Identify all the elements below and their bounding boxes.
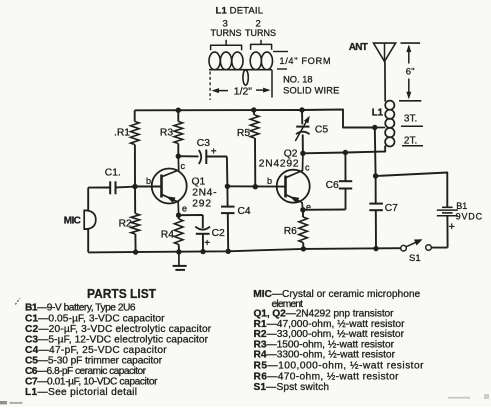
- R3 value label: [160, 127, 173, 138]
- junction top of R5: [251, 107, 256, 112]
- svg-text:C6: C6: [326, 180, 339, 191]
- svg-text:B1: B1: [456, 201, 467, 211]
- L1 tap wire: [375, 127, 385, 129]
- svg-text:+: +: [449, 221, 455, 233]
- svg-text:C3: C3: [197, 138, 210, 149]
- wire: C4 node to Q2 base: [227, 185, 285, 187]
- parts list item L1: [25, 387, 137, 398]
- svg-text:NO. 18: NO. 18: [283, 75, 312, 85]
- parts list item C1: [25, 313, 165, 324]
- junction R6 bottom: [301, 246, 306, 251]
- MIC label: [64, 215, 81, 226]
- parts list item C4: [25, 345, 167, 356]
- L1 detail coil (5 loops with tap): [209, 52, 273, 70]
- svg-text:C6—6.8-pF ceramic capacitor: C6—6.8-pF ceramic capacitor: [25, 366, 147, 377]
- Q1 base label b: [146, 176, 151, 186]
- resistor R1: [131, 110, 140, 186]
- svg-text:R5: R5: [237, 128, 250, 139]
- L1 tap junction: [372, 125, 377, 130]
- bracket over 2 turns: [251, 40, 272, 50]
- junction Q1 emitter node: [176, 213, 181, 218]
- Q2 designator: [259, 148, 299, 169]
- R6 value label: [284, 226, 297, 237]
- svg-text:+: +: [204, 238, 210, 249]
- parts list item C7: [25, 377, 158, 388]
- svg-text:.R1: .R1: [114, 127, 130, 138]
- parts list item C6: [25, 366, 147, 377]
- parts list item C3: [25, 335, 209, 346]
- svg-text:C5: C5: [315, 125, 328, 136]
- svg-text:Q1: Q1: [192, 177, 206, 188]
- Q1 emitter label e: [182, 204, 187, 214]
- C3 value label: [197, 138, 210, 149]
- capacitor C7: [369, 176, 383, 249]
- svg-text:C4: C4: [238, 206, 251, 217]
- quarter-inch form callout: [273, 52, 331, 70]
- svg-text:2N4-: 2N4-: [192, 188, 216, 199]
- svg-text:L1: L1: [372, 108, 384, 119]
- Q2 emitter label e: [306, 202, 311, 212]
- junction Q1 collector node: [176, 154, 181, 159]
- svg-text:c: c: [181, 161, 186, 171]
- wire: L1 bottom to collector row: [303, 147, 385, 154]
- L1 detail 3-turns label: [211, 19, 242, 39]
- ground symbol: [173, 252, 187, 270]
- svg-text:Q2: Q2: [284, 148, 298, 159]
- battery B1: [431, 207, 458, 247]
- svg-text:6": 6": [406, 67, 415, 78]
- parts list item R3: [254, 339, 395, 350]
- svg-text:MIC: MIC: [64, 215, 81, 226]
- capacitor C6: [303, 153, 352, 210]
- svg-text:1/4" FORM: 1/4" FORM: [279, 56, 330, 66]
- svg-text:S1—Spst switch: S1—Spst switch: [254, 382, 330, 393]
- svg-text:e: e: [182, 204, 187, 214]
- resistor R5: [250, 110, 259, 187]
- trimmer capacitor C5: [295, 110, 310, 153]
- parts list item R2: [254, 329, 405, 340]
- R4 value label: [161, 230, 174, 241]
- svg-text:1/2": 1/2": [234, 86, 252, 97]
- wire gauge note: [283, 75, 339, 96]
- Q1 collector label c: [181, 161, 186, 171]
- C5 value label: [315, 125, 328, 136]
- svg-text:R6—470-ohm, ½-watt resistor: R6—470-ohm, ½-watt resistor: [254, 371, 400, 382]
- resistor R2: [131, 187, 140, 253]
- resistor R3: [174, 110, 183, 156]
- svg-text:b: b: [267, 176, 272, 186]
- svg-text:+: +: [211, 147, 217, 158]
- bottom ground rail wire: [88, 248, 401, 252]
- svg-text:C2: C2: [212, 228, 225, 239]
- svg-text:c: c: [305, 163, 310, 173]
- Q1 designator: [192, 177, 217, 210]
- parts list MIC element line: [272, 299, 304, 310]
- capacitor C3: [178, 150, 227, 187]
- C6 value label: [326, 180, 339, 191]
- resistor R6: [299, 210, 308, 249]
- R5 value label: [237, 128, 250, 139]
- microphone MIC: [84, 188, 96, 253]
- svg-text:C1.: C1.: [105, 167, 121, 178]
- R1 value label: [114, 127, 130, 138]
- wire: branch to battery: [376, 173, 448, 208]
- capacitor C4: [221, 186, 235, 251]
- svg-text:B1—9-V battery, Type 2U6: B1—9-V battery, Type 2U6: [25, 303, 136, 314]
- svg-text:292: 292: [192, 198, 211, 209]
- 3T marker: [401, 113, 423, 126]
- svg-text:ANT: ANT: [349, 42, 368, 53]
- parts list item S1: [254, 382, 330, 393]
- svg-text:C5—5-30 pF trimmer capacitor: C5—5-30 pF trimmer capacitor: [25, 355, 163, 366]
- svg-text:3T.: 3T.: [404, 113, 417, 124]
- svg-text:S1: S1: [409, 253, 421, 264]
- B1 label: [456, 201, 483, 221]
- junction C2 bottom: [200, 249, 205, 254]
- C4 value label: [238, 206, 251, 217]
- svg-text:PARTS LIST: PARTS LIST: [87, 286, 156, 301]
- parts list item R1: [254, 319, 406, 330]
- svg-text:R5—100,000-ohm, ½-watt resisto: R5—100,000-ohm, ½-watt resistor: [254, 361, 425, 372]
- svg-text:TURNS: TURNS: [211, 28, 242, 38]
- inductor L1: [385, 101, 394, 148]
- L1 detail title: [216, 6, 264, 17]
- junction Q2 emitter node: [300, 207, 305, 212]
- bracket over 3 turns: [211, 40, 242, 51]
- parts list item Q1, Q2: [254, 309, 395, 320]
- junction R2 bottom: [133, 249, 138, 254]
- junction C7 bottom: [373, 246, 378, 251]
- svg-text:R4: R4: [161, 230, 174, 241]
- antenna symbol: [374, 43, 396, 61]
- junction C6 top: [343, 150, 348, 155]
- svg-text:2T.: 2T.: [404, 136, 417, 147]
- transistor Q2: [277, 153, 310, 210]
- svg-text:b: b: [146, 176, 151, 186]
- junction top of R3: [176, 108, 181, 113]
- 2T marker: [402, 136, 423, 147]
- svg-text:9VDC: 9VDC: [456, 211, 483, 221]
- svg-text:C1—0.05-µF, 3-VDC capacitor: C1—0.05-µF, 3-VDC capacitor: [25, 313, 165, 324]
- parts list item B1: [25, 303, 136, 314]
- junction battery branch: [373, 173, 378, 178]
- C7 value label: [385, 203, 398, 214]
- Q2 collector label c: [305, 163, 310, 173]
- top supply rail wire: [135, 110, 375, 128]
- svg-text:C7—0.01-µF, 10-VDC capacitor: C7—0.01-µF, 10-VDC capacitor: [25, 377, 158, 388]
- svg-text:R4—3300-ohm, ½-watt resistor: R4—3300-ohm, ½-watt resistor: [254, 350, 396, 361]
- svg-text:L1 DETAIL: L1 DETAIL: [216, 6, 264, 17]
- junction Q2 collector node: [300, 151, 305, 156]
- ANT label: [349, 42, 368, 53]
- battery polarity plus: [449, 221, 455, 233]
- parts list item C5: [25, 355, 163, 366]
- svg-text:C7: C7: [385, 203, 398, 214]
- junction R5 bottom: [253, 184, 258, 189]
- S1 label: [409, 253, 421, 264]
- parts list item MIC: [253, 289, 420, 300]
- antenna lead wire: [384, 62, 386, 101]
- parts list item C2: [25, 324, 212, 335]
- R2 value label: [119, 218, 132, 229]
- Q2 base label b: [267, 176, 272, 186]
- parts list title: [87, 286, 156, 301]
- switch S1: [401, 239, 432, 251]
- junction R4 bottom / ground: [176, 249, 181, 254]
- svg-text:2N4292: 2N4292: [259, 159, 299, 170]
- junction C4 bottom: [226, 249, 231, 254]
- junction Q1 base node: [132, 184, 137, 189]
- parts list item R4: [254, 350, 396, 361]
- capacitor C2: [179, 215, 210, 252]
- svg-text:R2: R2: [119, 218, 132, 229]
- junction C4 top: [225, 184, 230, 189]
- svg-text:TURNS: TURNS: [245, 28, 276, 38]
- parts list item R6: [254, 371, 400, 382]
- svg-text:R6: R6: [284, 226, 297, 237]
- wire: L1 tap down to C7: [374, 128, 377, 177]
- parts list item R5: [254, 361, 425, 372]
- half-inch dimension: [210, 70, 272, 100]
- resistor R4: [174, 215, 183, 252]
- L1 label: [372, 108, 384, 119]
- C2 polarity plus: [204, 238, 210, 249]
- junction top of C5: [299, 107, 304, 112]
- C3 polarity plus: [211, 147, 217, 158]
- transistor Q1: [135, 156, 187, 215]
- C1 value label: [105, 167, 121, 178]
- svg-text:R3: R3: [160, 127, 173, 138]
- L1 detail 2-turns label: [245, 19, 276, 39]
- svg-text:C3—5-µF, 12-VDC electrolytic c: C3—5-µF, 12-VDC electrolytic capacitor: [25, 335, 209, 346]
- svg-text:L1—See pictorial detail: L1—See pictorial detail: [25, 387, 137, 398]
- capacitor C1: [88, 181, 135, 194]
- svg-text:SOLID WIRE: SOLID WIRE: [283, 86, 339, 96]
- svg-text:C4—47-pF, 25-VDC capacitor: C4—47-pF, 25-VDC capacitor: [25, 345, 167, 356]
- L1 detail tap loop: [243, 70, 248, 85]
- C2 value label: [212, 228, 225, 239]
- 6-inch dimension: [399, 43, 421, 101]
- svg-text:C2—20-µF, 3-VDC electrolytic c: C2—20-µF, 3-VDC electrolytic capacitor: [25, 324, 212, 335]
